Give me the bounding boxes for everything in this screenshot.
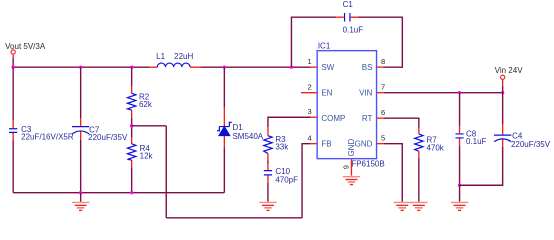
svg-text:L1: L1 (156, 52, 165, 61)
pin 9 GND pad rotated label (341, 139, 356, 176)
pin 8 BS (362, 57, 385, 72)
pin 2 EN (301, 82, 333, 97)
pin 3 COMP (307, 107, 345, 123)
svg-text:7: 7 (381, 82, 385, 91)
node junction dot R2/R4 FB tap (130, 124, 133, 127)
wire top bus right segment (SW node) (200, 66, 310, 68)
svg-text:GND: GND (355, 139, 373, 148)
pin 1 SW (307, 57, 334, 72)
pin 6 RT (362, 108, 385, 123)
capacitor C7 (polarized) (72, 67, 128, 192)
svg-text:470pF: 470pF (275, 176, 298, 185)
svg-text:12k: 12k (140, 152, 154, 161)
svg-text:33k: 33k (275, 143, 289, 152)
svg-text:FB: FB (321, 139, 331, 148)
IC IC1 FP6150B body (317, 42, 385, 169)
ground at R7 (410, 202, 427, 210)
svg-text:D1: D1 (232, 123, 243, 132)
svg-text:Vin 24V: Vin 24V (495, 66, 524, 75)
svg-text:BS: BS (362, 63, 373, 72)
node junction dot at port/C3 (11, 65, 14, 68)
wire top bus left segment (13, 66, 150, 68)
wire Vin port lead (502, 80, 504, 93)
wire pin 5 to ground (384, 144, 402, 202)
svg-text:9: 9 (341, 165, 350, 169)
svg-text:6: 6 (381, 108, 385, 117)
node junction dot at C1 riser (290, 65, 293, 68)
wire C8 ground stub (459, 185, 461, 201)
svg-text:1: 1 (307, 57, 311, 66)
svg-text:3: 3 (307, 107, 311, 116)
svg-text:Vout 5V/3A: Vout 5V/3A (5, 42, 46, 51)
resistor R3 (264, 127, 289, 164)
svg-text:VIN: VIN (359, 88, 373, 97)
node junction dot C8/C4 bottom (458, 184, 461, 187)
svg-text:4: 4 (307, 133, 311, 142)
pin 5 GND (355, 133, 385, 148)
node junction dot at D1 (223, 65, 226, 68)
wire COMP from pin 3 (268, 117, 311, 127)
svg-text:C10: C10 (275, 167, 290, 176)
pin 4 FB (307, 133, 331, 148)
node junction dot at R2 (130, 65, 133, 68)
resistor R7 (415, 127, 445, 201)
svg-text:SM540A: SM540A (232, 132, 263, 141)
svg-text:EN: EN (321, 88, 332, 97)
resistor R4 (127, 138, 153, 193)
svg-text:SW: SW (321, 63, 334, 72)
capacitor C8 (455, 93, 486, 186)
svg-text:220uF/35V: 220uF/35V (88, 133, 128, 142)
capacitor C3 (9, 67, 74, 192)
node junction dot C7 ground (79, 191, 82, 194)
node junction dot C8 top (458, 91, 461, 94)
svg-text:5: 5 (381, 133, 385, 142)
svg-text:62k: 62k (139, 100, 153, 109)
wire FB vertical drop (165, 126, 167, 218)
svg-text:470k: 470k (426, 143, 444, 152)
wire FB riser to pin 4 (302, 144, 310, 218)
wire pin 8 to C1 loop (358, 17, 403, 67)
node junction dot Vin port / C4 (501, 91, 504, 94)
svg-text:RT: RT (362, 114, 373, 123)
port Vout circle (11, 50, 15, 54)
ground at C8 (451, 202, 468, 210)
wire C1 loop left side (291, 17, 336, 67)
wire FB tap horizontal (132, 125, 167, 127)
capacitor C4 (polarized) (460, 93, 551, 186)
svg-text:220uF/35V: 220uF/35V (511, 140, 551, 149)
svg-text:C1: C1 (343, 0, 354, 9)
svg-text:COMP: COMP (321, 114, 345, 123)
resistor R2 (127, 67, 152, 137)
ground at pin 5 (394, 202, 413, 210)
diode D1 SM540A (217, 67, 264, 192)
svg-text:0.1uF: 0.1uF (466, 137, 487, 146)
capacitor C1 (336, 0, 363, 34)
pin 7 VIN (359, 82, 385, 97)
svg-text:22uF/16V/X5R: 22uF/16V/X5R (21, 133, 74, 142)
svg-text:2: 2 (307, 82, 311, 91)
svg-text:GND: GND (347, 139, 356, 157)
ground at C10 (259, 202, 276, 210)
ground at pin 9 (343, 177, 360, 185)
inductor L1 (150, 52, 201, 67)
capacitor C10 (264, 164, 298, 202)
wire VIN rail from pin 7 (384, 92, 503, 94)
svg-text:0.1uF: 0.1uF (343, 25, 364, 34)
svg-text:FP6150B: FP6150B (351, 159, 384, 168)
ground at C7 (72, 202, 89, 210)
node junction dot R4 bottom (130, 191, 133, 194)
port Vin circle (501, 75, 505, 79)
wire bottom ground bus (13, 192, 224, 194)
svg-text:IC1: IC1 (318, 42, 331, 51)
wire port Vout lead (12, 54, 14, 67)
node junction dot at C7 (79, 65, 82, 68)
svg-text:22uH: 22uH (174, 52, 193, 61)
svg-text:8: 8 (381, 57, 385, 66)
wire C7 ground stub (80, 193, 82, 202)
wire pin 6 to R7 (384, 118, 419, 127)
wire FB bottom run (166, 217, 302, 219)
